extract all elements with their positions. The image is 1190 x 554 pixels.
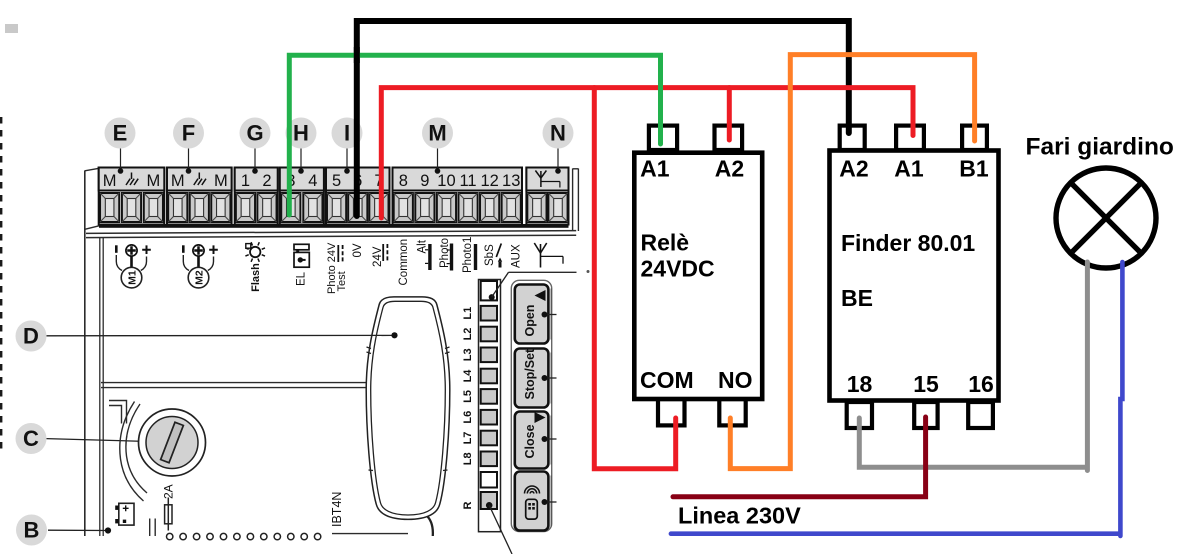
antenna wire from cover (428, 517, 433, 537)
svg-text:4: 4 (308, 172, 317, 190)
svg-text:0V: 0V (352, 243, 364, 257)
board top edge under terminal strip (86, 231, 576, 234)
battery icon (115, 503, 134, 525)
svg-text:Alt: Alt (417, 239, 429, 253)
svg-text:D: D (23, 324, 39, 349)
wire dark red: finder 15 to Linea 230V (673, 417, 926, 497)
cover parting ticks (367, 347, 372, 349)
finder K1 terminal tab A1 (896, 126, 924, 150)
screw terminal H2 (303, 193, 322, 222)
svg-text:E: E (113, 121, 128, 146)
screw terminal F3 (211, 193, 230, 222)
svg-text:5: 5 (332, 172, 341, 190)
callout circle F (173, 118, 204, 149)
svg-text:Common: Common (398, 239, 410, 286)
svg-text:L5: L5 (462, 390, 474, 403)
svg-text:M: M (214, 172, 228, 190)
terminal group M box (393, 168, 523, 225)
svg-text:A2: A2 (715, 156, 744, 182)
LED square L6 (481, 410, 497, 425)
svg-text:12: 12 (480, 172, 498, 190)
finder K1 terminal tab 18 (847, 402, 872, 428)
callout circle D (16, 321, 47, 352)
svg-text:2: 2 (262, 172, 271, 190)
leader dot on top white square (489, 294, 495, 300)
screw terminal I1 (327, 193, 346, 222)
svg-text:BE: BE (841, 285, 873, 311)
svg-text:SbS: SbS (484, 244, 496, 266)
board slot channel arc around fuse (126, 404, 147, 493)
svg-text:M1: M1 (127, 270, 139, 285)
wire gray: finder 18 to lamp (859, 262, 1087, 471)
relay U1 terminal tab A1 (649, 126, 677, 150)
board left edge double line (99, 237, 101, 536)
motor icon M1 (116, 245, 151, 288)
svg-text:L7: L7 (462, 432, 474, 445)
terminal group N box (526, 168, 568, 225)
fuse holder outer ring (139, 409, 206, 476)
svg-text:Fari giardino: Fari giardino (1026, 134, 1174, 161)
wire black overlap patch at green crossing (354, 47, 360, 63)
leader line B (48, 527, 111, 533)
svg-text:Relè: Relè (641, 230, 690, 256)
board inner horizontal division (left section) (101, 382, 430, 384)
wire black: terminal 6 to finder A2 (357, 21, 849, 216)
board left housing edge (84, 171, 86, 537)
LED square R (481, 492, 497, 509)
svg-text:10: 10 (437, 172, 455, 190)
terminal group N label row (526, 168, 568, 191)
svg-text:F: F (182, 121, 195, 146)
svg-text:A1: A1 (640, 156, 670, 182)
finder K1 terminal tab 15 (914, 402, 937, 428)
svg-text:15: 15 (913, 371, 939, 397)
screw terminal M2 (415, 193, 434, 222)
board slot channel upper-left of fuse (109, 401, 127, 424)
screw terminal E3 (144, 193, 163, 222)
svg-text:AUX: AUX (511, 244, 523, 268)
svg-text:NO: NO (718, 367, 753, 393)
leader line H (298, 149, 304, 174)
LED square L7 (481, 431, 497, 446)
terminal group F label row (167, 168, 232, 191)
terminal group H label row (280, 168, 324, 191)
screw terminal F2 (190, 193, 209, 222)
LED square L1 (481, 306, 497, 321)
leader for button Close (542, 436, 557, 442)
terminal group G box (235, 168, 278, 225)
terminal strip left end-cap (85, 168, 99, 171)
finder K1 terminal tab A2 (840, 126, 865, 150)
svg-text:9: 9 (420, 172, 429, 190)
DC symbol for 24V (382, 244, 384, 261)
svg-text:M: M (171, 172, 185, 190)
svg-text:Linea 230V: Linea 230V (678, 503, 801, 529)
svg-text:24V: 24V (372, 246, 384, 267)
page remnant dashed border left (0, 117, 2, 453)
LED square W1 (481, 281, 497, 300)
svg-text:M: M (428, 121, 446, 146)
screw terminal M1 (394, 193, 413, 222)
svg-text:R: R (462, 501, 474, 509)
svg-text:H: H (293, 121, 309, 146)
leader line D (47, 334, 393, 336)
svg-text:13: 13 (502, 172, 520, 190)
relay U1 terminal tab COM (658, 399, 685, 425)
svg-text:N: N (550, 121, 566, 146)
radio cover outline (item D) (366, 297, 450, 520)
terminal group H box (280, 168, 324, 225)
stray dot (587, 270, 590, 273)
screw terminal N2 (548, 193, 567, 222)
svg-text:Close: Close (523, 424, 537, 458)
svg-text:G: G (246, 121, 263, 146)
leader diagonal from R square (489, 505, 512, 554)
screw terminal H1 (281, 193, 300, 222)
DC symbol for Photo24V (337, 245, 339, 262)
terminal group E label row (99, 168, 165, 191)
leader line N (555, 149, 561, 174)
screw terminal I3 (369, 193, 388, 222)
svg-text:COM: COM (640, 367, 694, 393)
screw terminal G2 (257, 193, 276, 222)
fuse symbol (165, 498, 172, 531)
motor icon M2 (183, 245, 218, 288)
svg-text:M2: M2 (194, 270, 206, 285)
antenna icon on board (534, 243, 563, 268)
screw terminal M6 (502, 193, 521, 222)
fuse holder slot (161, 422, 184, 463)
svg-text:18: 18 (847, 371, 873, 397)
leader diagonal from top white square (492, 272, 509, 297)
svg-text:Test: Test (336, 271, 348, 291)
finder K1 terminal tab 16 (968, 402, 993, 428)
svg-text:L2: L2 (462, 328, 474, 341)
callout circle G (240, 118, 271, 149)
buttons panel outline (511, 280, 551, 531)
LED square W2 (481, 472, 497, 488)
svg-text:2A: 2A (162, 484, 176, 499)
leader line F (186, 149, 192, 174)
leader line C (47, 439, 157, 445)
leader dot D on cover (391, 332, 397, 338)
svg-text:EL: EL (296, 271, 308, 286)
svg-text:L3: L3 (462, 348, 474, 361)
callout circle I (332, 118, 363, 149)
terminal group G label row (235, 168, 278, 191)
LED square L4 (481, 369, 497, 384)
leader dot on R square (486, 502, 493, 509)
wire red branch to relay A2 (727, 88, 732, 140)
svg-text:Flash: Flash (250, 263, 262, 292)
callout circle N (543, 118, 574, 149)
connector pin dots row (167, 533, 321, 539)
wire green: terminal 3 to relay A1 (289, 55, 660, 215)
screw terminal M3 (437, 193, 456, 222)
svg-text:I: I (344, 121, 350, 146)
svg-text:11: 11 (459, 172, 476, 190)
svg-text:1: 1 (241, 172, 250, 190)
svg-text:L6: L6 (462, 411, 474, 424)
ground symbol in group E (131, 173, 133, 180)
button Stop/Set (515, 348, 551, 408)
relay U1 body (634, 153, 762, 399)
svg-text:L8: L8 (462, 452, 474, 465)
svg-text:Photo1: Photo1 (462, 237, 474, 273)
svg-text:L4: L4 (462, 369, 474, 383)
svg-text:L1: L1 (462, 307, 474, 320)
screw terminal N1 (527, 193, 546, 222)
svg-text:M: M (146, 172, 160, 190)
ground symbol in group F (198, 173, 200, 180)
screw terminal M4 (458, 193, 477, 222)
electric lock icon EL (294, 244, 309, 267)
svg-text:Finder 80.01: Finder 80.01 (841, 230, 975, 256)
button Open (515, 285, 551, 344)
svg-text:Open: Open (523, 305, 537, 337)
screw terminal I2 (348, 193, 367, 222)
leader line G (252, 149, 258, 174)
svg-text:C: C (23, 426, 39, 451)
board connector bottom line (332, 533, 408, 535)
leader for button Open (542, 312, 557, 318)
wire orange: relay NO to finder B1 (730, 55, 974, 469)
callout circle M (422, 118, 453, 149)
terminal group F box (167, 168, 232, 225)
LED square L5 (481, 389, 497, 404)
button RADIO (515, 472, 551, 531)
board edge above buttons (509, 271, 577, 273)
leader line E (118, 149, 124, 174)
callout circle B (16, 515, 47, 546)
terminal group I label row (326, 168, 390, 191)
svg-text:B: B (24, 518, 40, 543)
leader line I (344, 149, 350, 174)
flash lamp icon (245, 242, 265, 262)
wire blue: lamp to Linea 230V (671, 262, 1123, 536)
relay U1 terminal tab A2 (715, 126, 743, 150)
svg-text:B1: B1 (959, 156, 989, 182)
terminal strip base bar (99, 224, 569, 228)
finder K1 terminal tab B1 (962, 126, 987, 150)
page remnant mark top-left (5, 24, 18, 33)
wire red: terminal 7 to relay A2 and finder A1 (381, 88, 913, 218)
button Close (515, 412, 551, 469)
screw terminal E1 (100, 193, 119, 222)
svg-text:16: 16 (968, 371, 994, 397)
lamp symbol (1056, 168, 1156, 268)
svg-text:IBT4N: IBT4N (330, 492, 344, 527)
LED square L3 (481, 348, 497, 363)
relay U1 terminal tab NO (719, 399, 745, 425)
callout circle H (286, 118, 317, 149)
board slot vertical below fuse (149, 519, 151, 537)
svg-text:24VDC: 24VDC (641, 256, 715, 282)
screw terminal F1 (168, 193, 187, 222)
svg-text:M: M (103, 172, 117, 190)
screw terminal G1 (236, 193, 255, 222)
LED square L2 (481, 327, 497, 342)
callout circle E (105, 118, 136, 149)
svg-text:A2: A2 (839, 156, 868, 182)
fuse holder cap (146, 417, 198, 469)
terminal group M label row (393, 168, 523, 191)
callout circle C (16, 423, 47, 454)
terminal strip right end-cap (572, 169, 574, 232)
terminal group I box (326, 168, 390, 225)
finder K1 body (830, 151, 999, 401)
svg-text:A1: A1 (894, 156, 924, 182)
leader for button Stop/Set (542, 375, 557, 381)
screw terminal E2 (122, 193, 141, 222)
antenna symbol in group N label (540, 171, 542, 187)
leader for button RADIO (542, 499, 557, 505)
terminal group E box (99, 168, 165, 225)
svg-text:8: 8 (399, 172, 408, 190)
wire red branch to relay COM (594, 88, 675, 469)
LED column body (479, 280, 501, 532)
svg-text:Stop/Set: Stop/Set (523, 348, 537, 400)
leader line M (435, 149, 441, 174)
screw terminal M5 (480, 193, 499, 222)
LED square L8 (481, 452, 497, 467)
